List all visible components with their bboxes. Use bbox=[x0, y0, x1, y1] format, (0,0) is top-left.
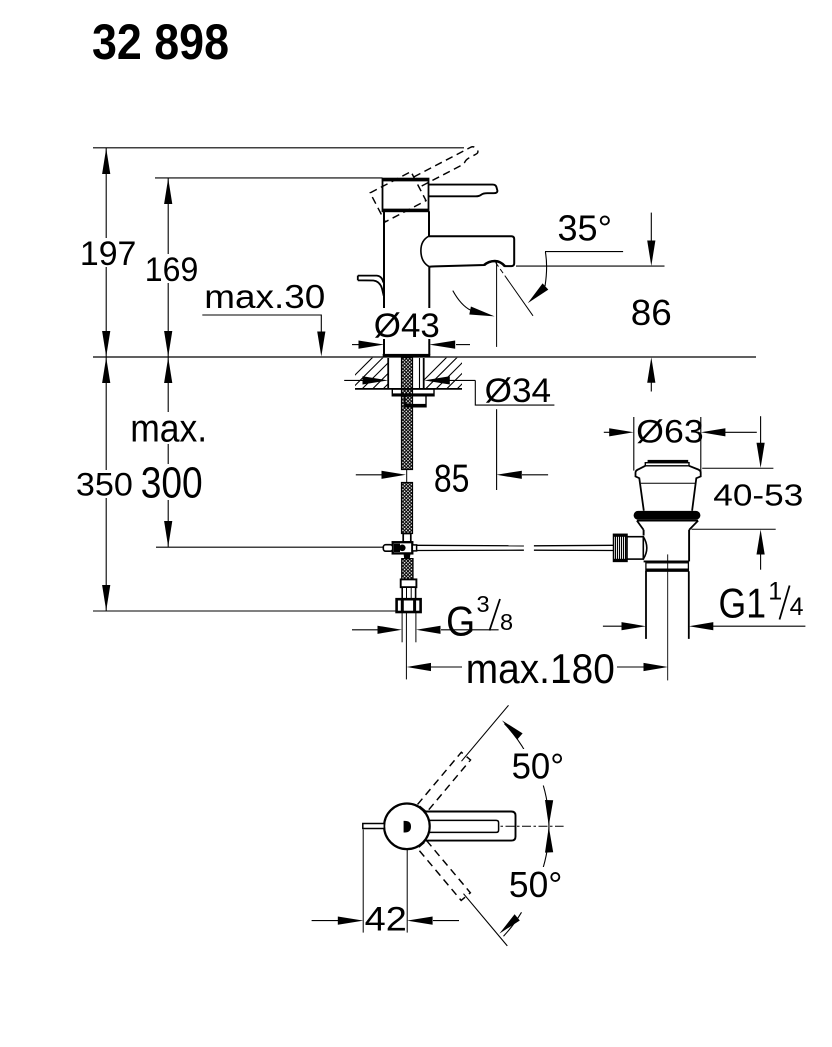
svg-text:42: 42 bbox=[365, 900, 407, 938]
dashed raised handle (rotated) bbox=[370, 140, 487, 222]
spout-body junction arc bbox=[421, 236, 429, 267]
Ø43 arrows bbox=[359, 341, 385, 349]
Ø63 dim tails bbox=[604, 431, 610, 433]
dim line 197/169 top level bbox=[93, 147, 464, 149]
svg-text:max.30: max.30 bbox=[204, 278, 325, 315]
35 deg leader arc + arrow bbox=[545, 252, 547, 286]
86 ext line at spout level bbox=[516, 265, 665, 267]
tailpipe collar bbox=[646, 563, 689, 571]
svg-text:max.180: max.180 bbox=[466, 645, 615, 692]
50 deg radial construction line lower bbox=[464, 894, 508, 946]
max.180 dim tails bbox=[430, 666, 462, 668]
hose gap centerline at 85 dim bbox=[406, 470, 408, 483]
42 dim tails bbox=[312, 920, 338, 922]
hose end fitting bbox=[403, 534, 411, 543]
G3/8 arrows bbox=[378, 626, 402, 634]
350 level line bbox=[93, 610, 398, 612]
svg-text:50°: 50° bbox=[509, 864, 563, 905]
Ø63 ext lines bbox=[633, 417, 635, 471]
86 dim verticals bbox=[650, 213, 652, 242]
pop-up pull rod knob bbox=[358, 276, 384, 296]
pull rod stub (top view) bbox=[363, 824, 385, 829]
funnel inner rim line bbox=[641, 482, 695, 484]
40-53 bottom ext bbox=[692, 528, 776, 530]
pop-up rod horizontal segment A bbox=[417, 545, 614, 550]
body circle (top view) bbox=[384, 804, 430, 850]
horseshoe washer bbox=[392, 389, 434, 396]
svg-text:85: 85 bbox=[434, 457, 470, 500]
hose end cylinder bbox=[402, 587, 415, 599]
svg-text:300: 300 bbox=[141, 459, 203, 508]
counter surface line bbox=[93, 356, 756, 358]
upper arc arrowheads bbox=[502, 720, 523, 739]
knurled adjuster knob bbox=[613, 534, 627, 561]
86 arrows bbox=[647, 241, 655, 267]
svg-text:4: 4 bbox=[790, 593, 804, 621]
40-53 bottom vertical bbox=[760, 554, 762, 570]
tailpipe centerline bbox=[667, 554, 669, 680]
Ø34 leader bbox=[475, 380, 554, 405]
shank tube walls bbox=[388, 358, 424, 389]
Ø43 ext lines bbox=[383, 342, 385, 356]
upper funnel flange bbox=[636, 466, 701, 511]
rod left knuckle bbox=[383, 545, 392, 552]
lever centerline bbox=[501, 825, 564, 827]
svg-text:169: 169 bbox=[145, 251, 199, 289]
max.30 arrow bbox=[317, 332, 325, 357]
tee right stub bbox=[412, 545, 416, 551]
G1 1/4 dim tails bbox=[603, 625, 622, 627]
svg-text:G1: G1 bbox=[719, 580, 767, 627]
lower arc arrowheads bbox=[545, 827, 553, 853]
angular dim arc lower segment 1 bbox=[543, 820, 549, 867]
85 arrows bbox=[382, 471, 406, 479]
Ø34 dim tails bbox=[344, 379, 363, 381]
mounting nut bbox=[405, 396, 426, 407]
svg-text:Ø43: Ø43 bbox=[374, 307, 440, 345]
angular dim arc upper segment 2 bbox=[543, 786, 549, 833]
42 ext lines bbox=[362, 830, 364, 933]
lever inner outline (top view) bbox=[429, 820, 499, 832]
svg-text:35°: 35° bbox=[558, 208, 613, 249]
dashed lever rotated down 50 bbox=[417, 841, 470, 901]
svg-text:40-53: 40-53 bbox=[713, 478, 803, 513]
300 level line bbox=[156, 546, 384, 548]
angular dim arc lower segment 2 bbox=[504, 912, 522, 936]
max.30 leader bbox=[202, 315, 321, 332]
G3/8 dim tails bbox=[352, 629, 378, 631]
spout bbox=[429, 236, 514, 267]
35 deg underline bbox=[545, 251, 623, 253]
vertical dim line 169/300 bbox=[167, 178, 169, 547]
lower flange bbox=[637, 521, 698, 530]
cartridge D-mark bbox=[404, 821, 411, 833]
dashed lever rotated up 50 bbox=[418, 752, 471, 812]
tailpipe bbox=[645, 571, 647, 639]
angular dim arc upper segment 1 bbox=[505, 724, 526, 753]
plug cap bbox=[648, 460, 689, 463]
braided hose (second section) bbox=[402, 483, 413, 534]
300 arrows bbox=[164, 357, 172, 383]
vertical dim line 197/350 bbox=[105, 148, 107, 611]
max.180 left ext line bbox=[405, 612, 407, 679]
svg-text:1: 1 bbox=[768, 578, 782, 606]
knob sleeve bbox=[627, 537, 643, 559]
svg-text:Ø34: Ø34 bbox=[485, 372, 551, 410]
40-53 top vertical bbox=[760, 416, 762, 443]
350 arrows bbox=[102, 357, 110, 383]
lever outer outline (top view) bbox=[424, 812, 515, 841]
G 1 1/4 label bbox=[719, 578, 804, 627]
40-53 arrows bbox=[757, 443, 765, 468]
197 arrows bbox=[102, 148, 110, 174]
50 deg radial construction line upper bbox=[462, 705, 509, 761]
Ø63 arrows bbox=[609, 428, 633, 436]
Ø43 dim tails bbox=[352, 344, 359, 346]
G 3/8 label bbox=[446, 591, 513, 645]
svg-text:Ø63: Ø63 bbox=[636, 414, 704, 450]
aerator outlet wave bbox=[484, 261, 505, 266]
faucet body column bbox=[384, 211, 429, 355]
svg-text:350: 350 bbox=[76, 467, 133, 503]
G3/8 hex nut bbox=[397, 599, 421, 612]
35 deg stream centerline bbox=[496, 263, 506, 277]
G1 1/4 arrows bbox=[622, 622, 646, 630]
ball joint bulge bbox=[643, 537, 647, 559]
G3/8 ext lines bbox=[401, 612, 403, 642]
svg-text:G: G bbox=[446, 598, 475, 645]
svg-text:8: 8 bbox=[500, 609, 513, 635]
valve body bbox=[644, 530, 690, 562]
svg-text:max.: max. bbox=[130, 408, 207, 451]
max.180 arrows bbox=[407, 663, 431, 671]
handle lever solid bbox=[429, 185, 498, 197]
threaded stud braided section (upper) bbox=[402, 358, 413, 470]
braided hose (third section) bbox=[402, 559, 413, 580]
42 arrows bbox=[338, 917, 364, 925]
aerator axis ext below counter bbox=[496, 409, 498, 490]
handle cap bbox=[382, 179, 429, 212]
swing arc + arrow at vertical axis bbox=[453, 291, 471, 311]
joint below tee bbox=[404, 553, 410, 558]
rubber O-ring gasket bbox=[634, 511, 701, 520]
svg-text:3: 3 bbox=[477, 591, 490, 617]
hose collar bbox=[401, 579, 417, 587]
169 arrows bbox=[164, 178, 172, 204]
pull-rod tee block bbox=[393, 542, 413, 553]
counter underside line bbox=[355, 388, 462, 390]
svg-text:32 898: 32 898 bbox=[92, 14, 229, 70]
faucet base plate bbox=[383, 354, 431, 357]
svg-text:50°: 50° bbox=[512, 746, 564, 787]
svg-text:197: 197 bbox=[80, 235, 136, 273]
85 dim tails bbox=[356, 474, 382, 476]
aerator axis centerline bbox=[496, 263, 498, 347]
Ø34 arrows bbox=[363, 376, 389, 384]
svg-text:86: 86 bbox=[631, 292, 672, 333]
40-53 top ext bbox=[702, 467, 773, 469]
